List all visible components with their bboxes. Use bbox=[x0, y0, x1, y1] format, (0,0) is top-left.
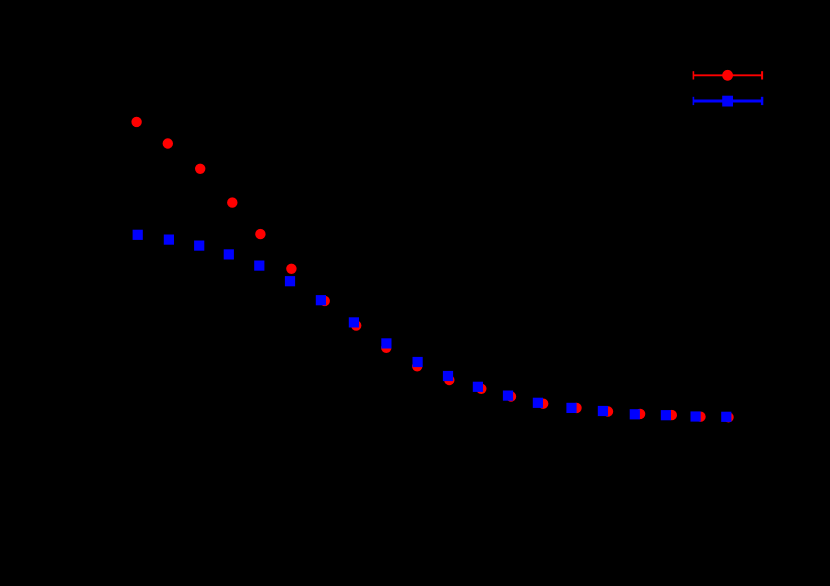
legend: blue errorbar sample with square bbox=[693, 97, 762, 105]
blue series (squares), drawn on top bbox=[133, 230, 732, 422]
legend: red errorbar sample with circle bbox=[693, 71, 762, 79]
red series (circles), drawn first so blue squares overlap bbox=[131, 117, 733, 423]
